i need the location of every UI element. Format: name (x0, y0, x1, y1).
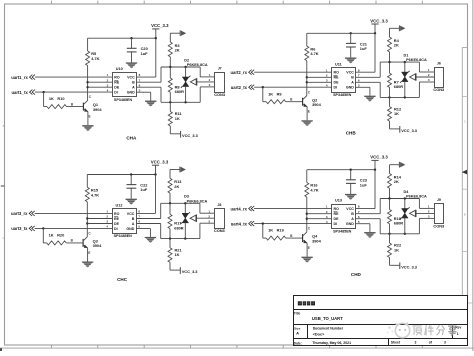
wire B rail (CHC) (161, 202, 200, 204)
svg-text:3: 3 (415, 341, 417, 345)
junction A rail / R7 (CHB) (388, 96, 390, 98)
svg-text:B: B (132, 217, 135, 221)
svg-text:R19: R19 (277, 228, 285, 233)
resistor R11 1K (CHA) (168, 102, 182, 126)
pin numbers 8 7 6 5 of U11 (CHB) (358, 68, 360, 87)
wire U10 pin A stub (CHA) (137, 86, 162, 88)
wire A drop (CHA) (160, 87, 162, 102)
junction VCC rail / C23 (CHD) (350, 169, 352, 171)
wire A rail to J9 pin3 (CHD) (419, 218, 434, 233)
port uart4_tx (CHD) (231, 221, 254, 226)
junction A rail / R8 (CHA) (169, 101, 171, 103)
resistor R7 680R (CHB) (388, 62, 404, 97)
junction B rail / R3 (CHA) (169, 66, 171, 68)
svg-text:1K: 1K (175, 116, 180, 121)
TVS diode D1 P6KE6.8CA (CHB) (400, 53, 427, 97)
svg-text:VCC_3.3: VCC_3.3 (401, 264, 418, 269)
svg-text:E: E (308, 110, 310, 114)
junction VCC rail / C20 (CHA) (130, 37, 132, 39)
wire R6 to Q2 collector (CHB) (306, 61, 308, 96)
junction A rail / D1 (CHB) (404, 96, 406, 98)
wire uart1_tx to DI (CHA) (35, 91, 112, 93)
wire VCC to U13 pin8 (CHD) (356, 170, 375, 209)
resistor R17 680R (CHC) (168, 203, 184, 238)
transistor Q1 3904 (CHA) (71, 95, 103, 118)
resistor R5 4.7K (CHA) (86, 51, 100, 66)
transistor Q3 3904 (CHC) (71, 232, 103, 255)
junction RE line (CHD) (306, 213, 308, 215)
connector J9 CON3 (CHD) (433, 198, 445, 228)
svg-text:R9: R9 (277, 91, 283, 96)
wire R14 to B rail (CHD) (389, 188, 391, 198)
port uart2_rx (CHB) (230, 70, 254, 75)
wire R9 to Q2 base (CHB) (286, 101, 303, 103)
junction RE line (CHB) (306, 76, 308, 78)
wire B rail (CHD) (380, 198, 419, 200)
ground below C23 (CHD) (345, 194, 356, 200)
wire DE stub (CHB) (307, 81, 332, 83)
pin numbers 8 7 6 5 of U12 (CHC) (138, 210, 140, 229)
wire VCC rail (CHD) (307, 169, 375, 171)
junction VCC rail / supply (CHC) (154, 173, 156, 175)
svg-text:U13: U13 (335, 199, 342, 203)
capacitor C20 1uF (CHA) (127, 38, 148, 62)
svg-text:U11: U11 (335, 62, 342, 66)
ground at U13 GND pin (CHD) (356, 224, 376, 238)
TVS diode D4 P6KE6.8CA (CHD) (400, 190, 427, 234)
svg-text:Document Number: Document Number (313, 327, 344, 331)
svg-text:DI: DI (114, 227, 118, 231)
svg-text:P6KE6.8CA: P6KE6.8CA (406, 58, 427, 62)
svg-text:VCC_3.3: VCC_3.3 (151, 160, 169, 165)
transistor Q4 3904 (CHD) (290, 227, 322, 250)
port uart3_rx (CHC) (11, 211, 35, 216)
wire uart3_tx to DI (CHC) (35, 227, 112, 229)
junction RE line (CHC) (86, 217, 88, 219)
wire U11 pin A stub (CHB) (356, 81, 381, 83)
svg-text:Date:: Date: (294, 341, 302, 345)
svg-text:SP3485EN: SP3485EN (114, 234, 133, 238)
wire B rail (CHA) (161, 66, 200, 68)
wire A rail (CHD) (380, 233, 419, 235)
wire R3 to B rail (CHA) (169, 57, 171, 67)
power flag VCC_3.3 bottom (CHC) (170, 262, 198, 274)
svg-text:R20: R20 (57, 233, 64, 238)
svg-text:J8: J8 (217, 203, 221, 207)
resistor R13 2K (CHC) (168, 178, 182, 193)
svg-text:2K: 2K (175, 48, 180, 53)
svg-text:Thursday, May 06, 2021: Thursday, May 06, 2021 (312, 341, 351, 345)
junction A rail / R18 (CHD) (388, 233, 390, 235)
resistor R21 1K (CHC) (168, 239, 182, 263)
power flag VCC_3.3 top (CHD) (370, 155, 388, 170)
wire branch to R19 (CHD) (263, 224, 266, 239)
ground below C22 (CHC) (126, 199, 137, 205)
resistor R22 1K (CHD) (388, 234, 402, 258)
capacitor C21 1uF (CHB) (346, 33, 368, 57)
port uart1_tx (CHA) (12, 90, 35, 95)
junction VCC rail / supply (CHD) (374, 169, 376, 171)
svg-text:J7: J7 (218, 67, 222, 71)
svg-text:VCC_3.3: VCC_3.3 (151, 23, 169, 28)
transceiver U10 SP3485EN (CHA) (113, 67, 137, 102)
svg-text:U10: U10 (116, 67, 123, 71)
svg-text:1K: 1K (394, 111, 399, 116)
resistor R14 2K (CHD) (388, 174, 402, 189)
junction VCC rail / supply (CHA) (155, 37, 157, 39)
svg-text:CHA: CHA (126, 136, 137, 141)
junction VCC rail / C21 (CHB) (350, 32, 352, 34)
wire B rail (CHB) (380, 61, 419, 63)
svg-text:1: 1 (457, 332, 459, 336)
svg-text:E: E (308, 246, 310, 250)
wire R13 to B rail (CHC) (169, 193, 171, 203)
ground below C21 (CHB) (345, 58, 356, 64)
junction DE line (CHC) (86, 222, 88, 224)
wire DE stub (CHC) (87, 223, 112, 225)
connector J7 CON3 (CHA) (214, 67, 226, 97)
svg-text:4.7K: 4.7K (310, 188, 318, 193)
svg-text:U12: U12 (116, 204, 123, 208)
pin numbers 1 2 3 of J6 (CHB) (428, 68, 430, 82)
junction B rail / D3 (CHC) (184, 202, 186, 204)
svg-text:D2: D2 (184, 58, 189, 62)
wire B rail to J9 pin1 (CHD) (419, 199, 434, 209)
wire rail to R6 (CHB) (306, 33, 308, 46)
svg-text:RO: RO (334, 207, 340, 211)
wire U13 pin B stub (CHD) (356, 213, 381, 215)
svg-text:A: A (351, 81, 354, 85)
svg-text:P6KE6.8CA: P6KE6.8CA (187, 199, 208, 203)
svg-text:CHC: CHC (117, 277, 128, 282)
svg-text:J6: J6 (437, 62, 441, 66)
junction uart4_tx branch (CHD) (262, 222, 264, 224)
svg-text:680R: 680R (174, 225, 183, 230)
wire uart3_rx to RO (CHC) (35, 212, 112, 214)
power flag VCC_3.3 bottom (CHD) (390, 258, 418, 270)
wire R5 to Q1 collector (CHA) (87, 66, 89, 101)
junction A rail / D4 (CHD) (404, 233, 406, 235)
svg-text:3904: 3904 (93, 243, 102, 248)
svg-text:uart1_tx: uart1_tx (12, 90, 29, 95)
junction B rail / D2 (CHA) (184, 66, 186, 68)
svg-text:uart2_tx: uart2_tx (231, 85, 248, 90)
wire DE stub (CHA) (88, 86, 113, 88)
wire U11 pin B stub (CHB) (356, 76, 381, 78)
junction uart2_tx branch (CHB) (262, 86, 264, 88)
wire rail to R16 (CHD) (306, 170, 308, 183)
svg-text:4.7K: 4.7K (91, 56, 99, 61)
svg-text:uart3_rx: uart3_rx (11, 211, 28, 216)
pin numbers 8 7 6 5 of U13 (CHD) (358, 205, 360, 224)
company name in title block (298, 301, 315, 305)
transceiver U13 SP3485EN (CHD) (332, 199, 356, 234)
wire B rail to J6 pin1 (CHB) (419, 62, 434, 72)
svg-text:CHD: CHD (351, 272, 362, 277)
wire R10 to Q1 base (CHA) (67, 106, 84, 108)
wire RE stub (CHA) (88, 81, 113, 83)
power flag VCC_3.3 top (CHA) (151, 23, 169, 38)
svg-text:680R: 680R (394, 84, 403, 89)
wire A rail (CHB) (380, 96, 419, 98)
svg-text:VCC: VCC (346, 207, 354, 211)
svg-text:DE: DE (334, 217, 340, 221)
svg-text:DI: DI (114, 91, 118, 95)
svg-text:USB_TO_UART: USB_TO_UART (312, 316, 343, 321)
watermark logo (387, 322, 410, 338)
svg-text:RE: RE (334, 212, 340, 216)
svg-text:GND: GND (346, 86, 354, 90)
svg-text:GND: GND (126, 227, 134, 231)
ground below Q4 (CHD) (301, 257, 312, 263)
svg-text:A: A (132, 222, 135, 226)
wire U12 pin B stub (CHC) (136, 218, 161, 220)
wire J9 pin2 with arrow (CHD) (410, 210, 434, 217)
svg-text:B: B (351, 76, 354, 80)
svg-text:1K: 1K (268, 228, 273, 233)
svg-text:680R: 680R (175, 89, 184, 94)
wire VCC rail (CHB) (307, 32, 375, 34)
svg-text:1uF: 1uF (141, 51, 149, 56)
title text (294, 312, 343, 322)
svg-text:D1: D1 (404, 53, 409, 57)
svg-text:RE: RE (114, 81, 120, 85)
svg-text:VCC: VCC (346, 71, 354, 75)
title block (294, 296, 468, 346)
wire A drop (CHD) (379, 219, 381, 234)
wire uart2_rx to RO (CHB) (254, 71, 331, 73)
junction B rail / R13 (CHC) (169, 202, 171, 204)
wire B rail to J7 pin1 (CHA) (200, 67, 215, 77)
svg-text:Sheet: Sheet (391, 341, 401, 345)
svg-text:uart2_rx: uart2_rx (230, 70, 247, 75)
svg-text:DE: DE (334, 81, 340, 85)
svg-text:1K: 1K (49, 233, 54, 238)
wire U12 pin A stub (CHC) (136, 223, 161, 225)
transistor Q2 3904 (CHB) (290, 90, 322, 113)
transceiver U12 SP3485EN (CHC) (113, 204, 137, 239)
junction B rail / R14 (CHD) (388, 197, 390, 199)
svg-text:RO: RO (114, 212, 120, 216)
wire uart1_rx to RO (CHA) (35, 76, 112, 78)
wire R20 to Q3 base (CHC) (66, 242, 83, 244)
wire A drop (CHC) (160, 224, 162, 239)
power flag VCC_3.3 bottom (CHB) (390, 121, 418, 133)
svg-text:CON3: CON3 (214, 92, 226, 97)
capacitor C23 1uF (CHD) (346, 170, 368, 194)
svg-text:GND: GND (346, 222, 354, 226)
port uart2_tx (CHB) (231, 85, 254, 90)
ground at U11 GND pin (CHB) (356, 87, 376, 101)
wire R19 to Q4 base (CHD) (286, 237, 303, 239)
wire A rail to J8 pin3 (CHC) (200, 223, 215, 238)
svg-text:uart4_tx: uart4_tx (231, 221, 248, 226)
svg-text:R10: R10 (57, 96, 64, 101)
svg-text:RO: RO (334, 71, 340, 75)
watermark text (413, 325, 457, 336)
wire B drop (CHC) (160, 203, 162, 218)
channel label CHB (346, 131, 357, 136)
junction uart3_tx branch (CHC) (42, 227, 44, 229)
junction B rail / R4 (CHB) (388, 61, 390, 63)
power arrow VCC (CHB) (390, 25, 406, 37)
wire uart4_rx to RO (CHD) (254, 208, 331, 210)
port uart1_rx (CHA) (11, 75, 35, 80)
wire B drop (CHD) (379, 199, 381, 214)
junction B rail / D1 (CHB) (404, 61, 406, 63)
svg-text:uart1_rx: uart1_rx (11, 75, 28, 80)
wire VCC rail (CHC) (87, 174, 155, 176)
wire J6 pin2 with arrow (CHB) (410, 73, 434, 80)
svg-text:B: B (132, 81, 135, 85)
svg-text:GND: GND (127, 91, 135, 95)
junction VCC rail / supply (CHB) (374, 32, 376, 34)
svg-text:B: B (3, 124, 5, 128)
wire A rail to J7 pin3 (CHA) (200, 87, 215, 102)
channel label CHD (351, 272, 362, 277)
junction DE line (CHA) (86, 86, 88, 88)
wire RE stub (CHC) (87, 218, 112, 220)
pin numbers 1-4 of U12 (CHC) (106, 210, 108, 229)
svg-text:VCC: VCC (127, 76, 135, 80)
resistor R19 1K (CHD) (266, 228, 286, 240)
wire U10 pin B stub (CHA) (137, 81, 162, 83)
svg-text:3904: 3904 (93, 107, 102, 112)
wire uart2_tx to DI (CHB) (254, 86, 331, 88)
svg-text:B: B (464, 213, 466, 217)
TVS diode D3 P6KE6.8CA (CHC) (181, 195, 208, 239)
channel label CHC (117, 277, 128, 282)
svg-text:4.7K: 4.7K (91, 192, 99, 197)
junction uart1_tx branch (CHA) (42, 91, 44, 93)
pin numbers 1-4 of U13 (CHD) (326, 205, 328, 224)
svg-text:DI: DI (334, 86, 338, 90)
resistor R10 1K (CHA) (47, 96, 67, 108)
svg-text:DI: DI (334, 222, 338, 226)
svg-text:B: B (351, 212, 354, 216)
wire A rail (CHC) (161, 238, 200, 240)
resistor R18 680R (CHD) (388, 199, 404, 234)
junction A rail / D3 (CHC) (184, 237, 186, 239)
svg-text:CON3: CON3 (433, 223, 445, 228)
resistor R16 4.7K (CHD) (305, 183, 319, 198)
connector J8 CON3 (CHC) (214, 203, 226, 233)
svg-text:VCC_3.3: VCC_3.3 (182, 133, 199, 138)
resistor R9 1K (CHB) (266, 91, 286, 103)
svg-text:D3: D3 (184, 195, 189, 199)
port uart4_rx (CHD) (230, 206, 254, 211)
wire Q2 emitter to ground (CHB) (306, 107, 308, 121)
date / sheet row (294, 341, 446, 346)
svg-text:VCC_3.3: VCC_3.3 (370, 155, 388, 160)
svg-text:DE: DE (114, 86, 120, 90)
svg-text:uart3_tx: uart3_tx (11, 226, 28, 231)
pin numbers 1 2 3 of J9 (CHD) (428, 205, 430, 219)
pin numbers 1 2 3 of J7 (CHA) (209, 73, 211, 87)
pin numbers 1-4 of U11 (CHB) (326, 68, 328, 87)
svg-text:VCC_3.3: VCC_3.3 (182, 269, 199, 274)
resistor R4 2K (CHB) (388, 37, 400, 52)
junction VCC rail / C22 (CHC) (130, 173, 132, 175)
power arrow VCC (CHD) (390, 162, 406, 174)
ground below Q2 (CHB) (301, 120, 312, 126)
wire Q3 emitter to ground (CHC) (87, 248, 89, 262)
svg-text:1uF: 1uF (360, 46, 368, 51)
power arrow VCC (CHA) (170, 30, 186, 42)
svg-text:DE: DE (114, 222, 120, 226)
svg-text:Title: Title (294, 312, 301, 316)
svg-text:RO: RO (114, 76, 120, 80)
junction DE line (CHB) (306, 81, 308, 83)
resistor R12 1K (CHB) (388, 97, 402, 121)
svg-text:E: E (89, 115, 91, 119)
svg-text:CON3: CON3 (214, 228, 226, 233)
svg-text:VCC: VCC (127, 212, 135, 216)
wire B rail to J8 pin1 (CHC) (200, 203, 215, 213)
wire R4 to B rail (CHB) (389, 52, 391, 62)
svg-text:1K: 1K (49, 96, 54, 101)
wire Q1 emitter to ground (CHA) (87, 112, 89, 126)
svg-text:2K: 2K (394, 43, 399, 48)
junction A rail / R17 (CHC) (169, 237, 171, 239)
svg-text:3904: 3904 (312, 238, 321, 243)
wire R15 to Q3 collector (CHC) (86, 202, 88, 237)
svg-text:RE: RE (114, 217, 120, 221)
svg-text:SP3485EN: SP3485EN (333, 93, 352, 97)
svg-text:1K: 1K (175, 252, 180, 257)
svg-text:VCC_3.3: VCC_3.3 (370, 18, 388, 23)
wire uart4_tx to DI (CHD) (254, 223, 331, 225)
svg-text:2K: 2K (174, 184, 179, 189)
svg-text:4.7K: 4.7K (310, 51, 318, 56)
ground below C20 (CHA) (126, 62, 137, 68)
connector J6 CON3 (CHB) (433, 62, 445, 92)
wire RE stub (CHB) (307, 76, 332, 78)
wire A rail (CHA) (161, 101, 200, 103)
junction RE line (CHA) (86, 81, 88, 83)
wire VCC to U11 pin8 (CHB) (356, 33, 375, 72)
svg-text:1uF: 1uF (140, 187, 148, 192)
wire DE stub (CHD) (307, 218, 332, 220)
port uart3_tx (CHC) (11, 226, 34, 231)
ground below Q3 (CHC) (82, 262, 93, 268)
svg-text:P6KE6.8CA: P6KE6.8CA (187, 63, 208, 67)
svg-text:2K: 2K (394, 179, 399, 184)
svg-text:1K: 1K (394, 247, 399, 252)
pin numbers 1-4 of U10 (CHA) (107, 73, 109, 92)
svg-text:VCC_3.3: VCC_3.3 (401, 128, 418, 133)
wire VCC to U10 pin8 (CHA) (137, 38, 156, 77)
resistor R20 1K (CHC) (47, 233, 66, 245)
svg-text:CON3: CON3 (433, 87, 445, 92)
power flag VCC_3.3 top (CHC) (151, 160, 169, 175)
capacitor C22 1uF (CHC) (127, 175, 149, 199)
power flag VCC_3.3 top (CHB) (370, 18, 388, 33)
channel label CHA (126, 136, 137, 141)
size / document number / rev row (294, 326, 461, 337)
svg-text:<Doc>: <Doc> (313, 332, 325, 336)
svg-text:RE: RE (334, 76, 340, 80)
wire VCC to U12 pin8 (CHC) (136, 175, 155, 214)
svg-text:E: E (88, 251, 90, 255)
ground at U12 GND pin (CHC) (136, 229, 156, 243)
junction B rail / D4 (CHD) (404, 197, 406, 199)
wire Q4 emitter to ground (CHD) (306, 243, 308, 257)
svg-text:3904: 3904 (312, 102, 321, 107)
svg-text:SP3485EN: SP3485EN (333, 229, 352, 233)
wire B drop (CHA) (160, 67, 162, 82)
wire B drop (CHB) (379, 62, 381, 77)
